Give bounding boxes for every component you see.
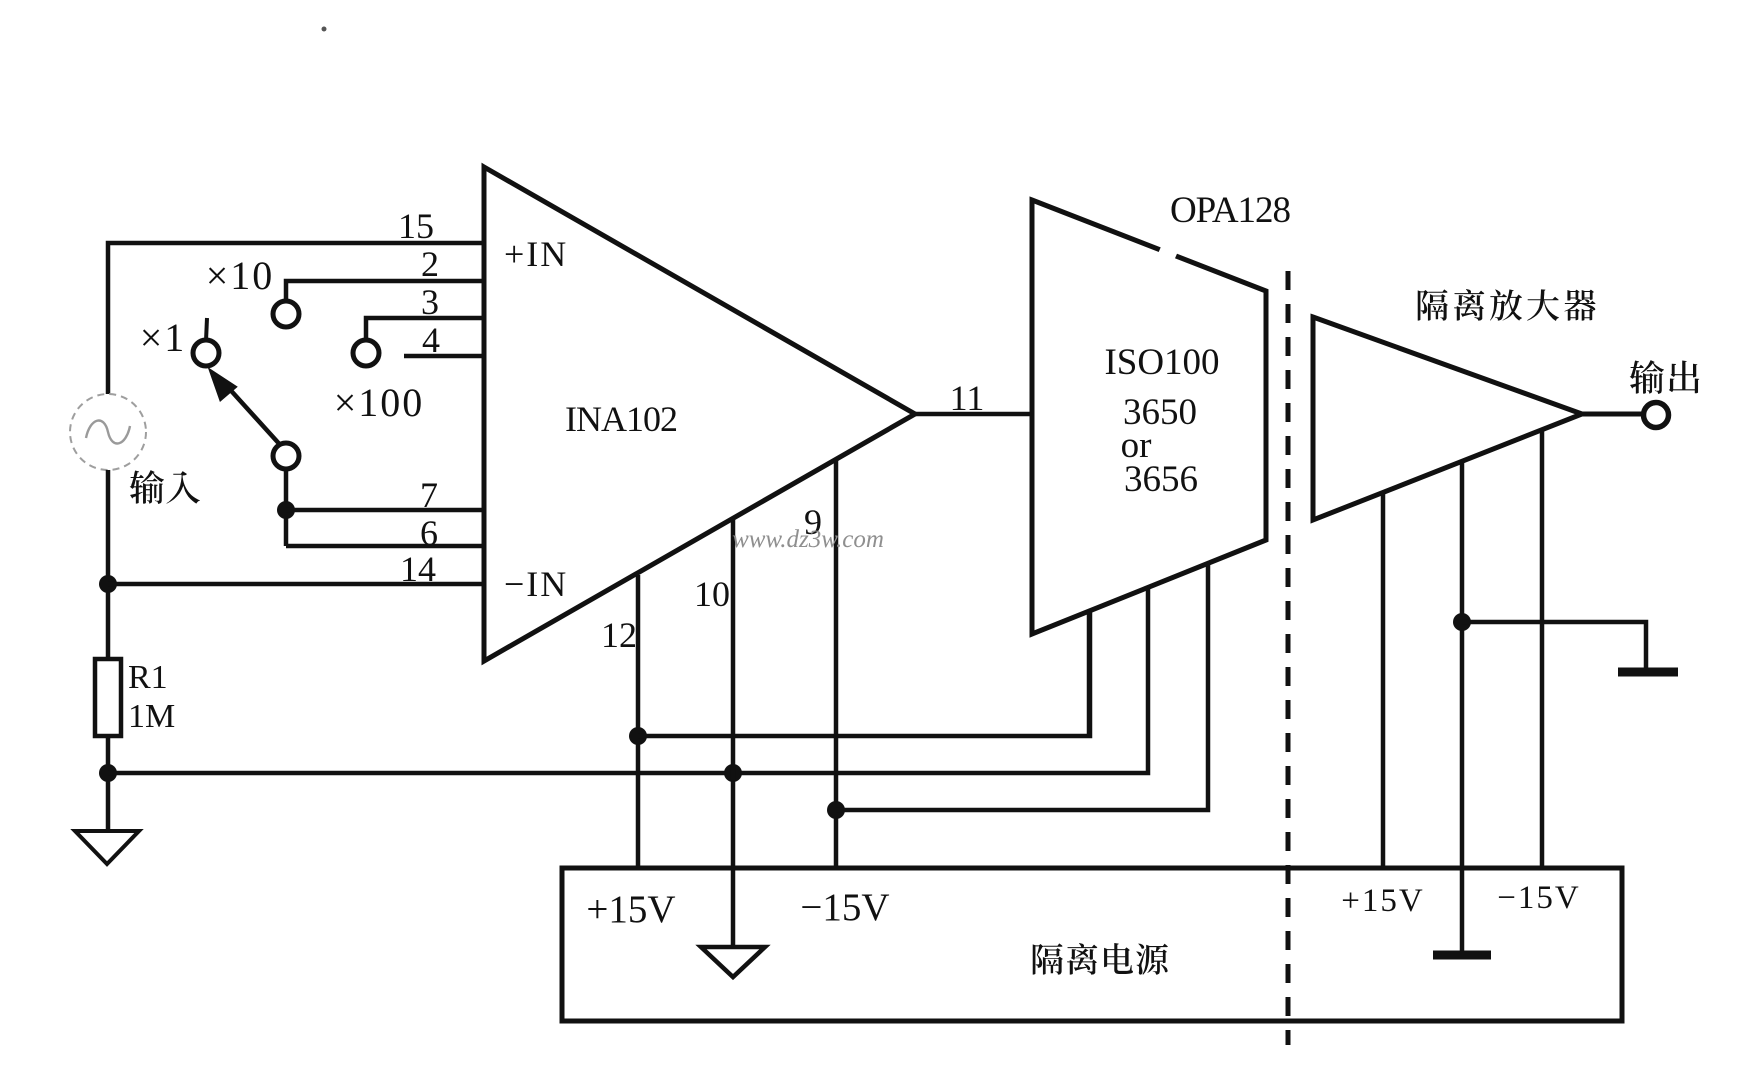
switch contact x1 stub [206,318,207,341]
switch S1 arm wire [225,384,283,448]
output terminal circle [1644,403,1669,428]
ground GND3 bar [1618,668,1678,677]
wire pin 2 from x10 contact [286,281,484,301]
stray dot artifact [322,27,327,32]
wire pin12 to ISO100 [638,611,1090,736]
label label 隔离电源 isolated power supply [1033,943,1168,975]
junction node R1 bottom [99,764,117,782]
svg-text:12: 12 [601,615,637,655]
wire pin 11 output [915,412,1032,417]
wire pin9 to ISO100 [836,563,1208,810]
switch contact x100 [353,340,379,366]
label label 输出 output [1630,360,1699,394]
AC source sine symbol [86,421,130,444]
svg-text:2: 2 [421,244,439,284]
svg-text:4: 4 [422,320,440,360]
isolation barrier dashed line [1286,271,1291,1045]
svg-text:×10: ×10 [206,253,275,298]
AC source V1 circle [70,394,146,470]
junction node pin12 net [629,727,647,745]
wire pin 9 [834,460,839,868]
switch contact x10 [273,301,299,327]
wire U3 +15V pin [1381,492,1386,868]
svg-text:11: 11 [950,378,985,418]
switch contact x1 [193,340,219,366]
svg-text:10: 10 [694,574,730,614]
svg-text:+15V: +15V [1341,883,1424,919]
label label 输入 input [130,470,200,504]
svg-text:−15V: −15V [800,886,889,929]
op-amp U1 INA102 body [484,167,915,661]
junction node pin9 net [827,801,845,819]
wire ISO100 bottom pin [1087,611,1092,736]
junction node pin14/source [99,575,117,593]
switch S1 arm arrowhead [210,370,236,400]
ground GND1 [75,831,139,864]
wire pin 7 [286,508,484,513]
laser trim gap on U2 top edge [1160,249,1176,256]
wire U3 output [1582,412,1643,417]
op-amp U3 isolation amplifier body [1313,317,1582,520]
svg-text:3: 3 [421,282,439,322]
svg-text:R1: R1 [128,659,168,696]
isolated power supply box [562,868,1622,1021]
wire to right ground [1462,622,1646,669]
wire pin 14 [108,582,484,587]
svg-text:15: 15 [398,206,434,246]
svg-text:1M: 1M [128,698,175,735]
ground GND4 bar in supply box [1433,951,1491,960]
ground GND2 in supply box [701,947,765,977]
label label 隔离放大器 isolation amplifier [1418,289,1596,321]
svg-text:−IN: −IN [504,564,568,604]
wire pin 6 [286,544,484,549]
wire input top (pin 15 net) [108,243,484,394]
svg-text:7: 7 [420,475,438,515]
wire U3 -15V pin [1540,430,1545,868]
resistor R1 [95,659,121,736]
svg-text:×1: ×1 [140,315,187,360]
svg-text:3656: 3656 [1124,459,1198,500]
wire pin 10 [731,519,736,946]
isolation amp U2 ISO100 body [1032,200,1266,634]
junction node pin10 / common net [724,764,742,782]
svg-text:14: 14 [400,549,436,589]
wire R1 bottom [106,736,111,831]
wire switch common down [284,469,289,546]
svg-text:OPA128: OPA128 [1170,190,1291,231]
wire U3 ground pin [1460,461,1465,952]
switch S1 common contact [273,443,299,469]
svg-text:×100: ×100 [334,380,425,425]
svg-text:−15V: −15V [1497,880,1580,916]
svg-text:6: 6 [420,513,438,553]
junction node pin7 [277,501,295,519]
junction node U3 ground [1453,613,1471,631]
svg-text:www.dz3w.com: www.dz3w.com [732,526,884,553]
svg-text:INA102: INA102 [565,399,677,439]
svg-text:+15V: +15V [586,888,675,931]
wire pin 3 from x100 contact [366,318,484,340]
wire common net R1 to ISO100 pin [108,588,1148,773]
svg-text:ISO100: ISO100 [1104,342,1219,383]
svg-text:+IN: +IN [504,234,568,274]
wire source bottom to R1 [106,470,111,661]
wire pin 12 [636,575,641,868]
wire pin 4 stub [404,354,484,359]
